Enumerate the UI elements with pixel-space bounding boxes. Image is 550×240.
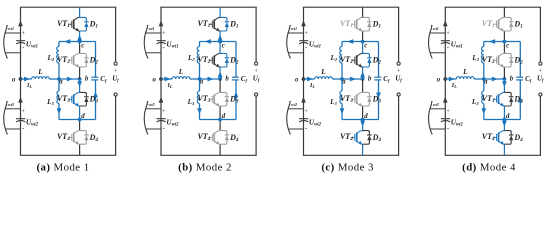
diode D4 (anti-parallel) xyxy=(504,131,511,145)
node b xyxy=(503,77,507,81)
wire: emitter stub of VT3 xyxy=(503,106,505,120)
transistor VT1 xyxy=(351,23,355,25)
node 0 (junction on left rail) xyxy=(302,77,306,81)
wire: right rail upper segment xyxy=(539,7,541,62)
svg-text:c: c xyxy=(364,43,367,50)
svg-text:IL: IL xyxy=(26,82,32,89)
svg-text:+: + xyxy=(397,67,401,74)
wire: emitter stub of VT1 xyxy=(79,31,81,42)
current arrow L3 down xyxy=(197,108,202,114)
current arrow L3 down xyxy=(481,108,486,114)
wire: Cf column upper segment xyxy=(519,42,521,78)
wire: c-row horizontal (L-column to Cf column) xyxy=(59,41,96,43)
wire: L-column top segment (c-row corner to L2) xyxy=(58,42,60,47)
inductor L3 xyxy=(57,91,59,103)
current arrow c-row (left) xyxy=(205,39,211,44)
current arrow Iwt2 (up, on left rail) xyxy=(18,97,23,103)
svg-text:+: + xyxy=(21,108,25,115)
wire: d-row horizontal (L-column to Cf column) xyxy=(200,119,237,121)
output port terminal (top circle) xyxy=(114,62,117,65)
transistor VT1 xyxy=(68,23,72,25)
capacitor Uwt2 (polarized) xyxy=(157,118,166,120)
wire: lower stub of winding 2 xyxy=(288,128,304,130)
transistor VT4 xyxy=(209,136,213,138)
wire: c-row horizontal (L-column to Cf column) xyxy=(342,41,379,43)
wire: right rail lower segment xyxy=(255,96,257,155)
wire: collector stub of VT1 xyxy=(79,7,81,17)
wire: emitter stub of VT2 xyxy=(362,67,364,79)
wire: bottom rail xyxy=(160,154,256,156)
current arrow L3 down xyxy=(340,108,345,114)
capacitor Uwt2 (polarized) xyxy=(16,118,25,120)
current arrow a to b (right) xyxy=(67,77,73,82)
current arrow c-row (left) xyxy=(489,39,495,44)
output port terminal (top circle) xyxy=(397,62,400,65)
current arrow Iwt2 (up, on left rail) xyxy=(443,97,448,103)
wire: top rail xyxy=(303,6,399,8)
wire: collector stub of VT1 xyxy=(219,7,221,17)
wire: bottom rail xyxy=(445,154,541,156)
wire: collector stub of VT4 xyxy=(79,120,81,131)
wire: emitter stub of VT3 xyxy=(79,106,81,120)
current arrow IL (right) xyxy=(307,77,313,82)
inductor L2 xyxy=(57,47,59,63)
svg-text:d: d xyxy=(81,113,85,120)
current arrow node b into VT3 (down) xyxy=(502,81,507,87)
wire: upper stub of winding 1 xyxy=(146,32,161,34)
wire: collector stub of VT1 xyxy=(362,7,364,17)
wire: bottom rail xyxy=(303,154,399,156)
output port terminal (bottom circle) xyxy=(397,93,400,96)
svg-text:(a) Mode 1: (a) Mode 1 xyxy=(36,161,89,173)
node c xyxy=(361,40,365,44)
svg-text:c: c xyxy=(506,43,509,50)
wire: Cf column lower segment xyxy=(378,80,380,120)
wire: node 0 to inductor L xyxy=(161,78,172,80)
current arrow Cf column (up) xyxy=(93,92,98,98)
svg-text:+: + xyxy=(539,67,543,74)
svg-text:(d) Mode 4: (d) Mode 4 xyxy=(462,161,516,173)
capacitor Uwt1 (polarized) xyxy=(16,40,25,42)
node a xyxy=(482,77,486,81)
diode D2 (anti-parallel) xyxy=(80,53,87,67)
wire: bottom rail xyxy=(20,154,116,156)
diode D4 (anti-parallel) xyxy=(220,131,227,145)
node b xyxy=(78,77,82,81)
transistor VT2 xyxy=(68,59,72,61)
wire: upper stub of winding 2 xyxy=(430,108,445,110)
wire: lower stub of winding 2 xyxy=(5,128,21,130)
wire: lower stub of winding 1 xyxy=(146,52,162,54)
wire: emitter stub of VT3 xyxy=(219,106,221,120)
current arrow c-row (left) xyxy=(64,39,70,44)
diode D2 (anti-parallel) xyxy=(220,53,227,67)
wire: inductor L to node a xyxy=(190,78,200,80)
wire: top rail xyxy=(20,6,116,8)
winding arc of source Uwt2 xyxy=(4,105,8,135)
wire: L2 to node a xyxy=(58,63,60,79)
diode D3 (anti-parallel) xyxy=(504,92,511,106)
current arrow a to b (right) xyxy=(208,77,214,82)
capacitor Cf xyxy=(374,76,381,78)
current arrow Cf column (down) xyxy=(376,93,381,99)
svg-text:L: L xyxy=(462,68,468,76)
wire: left rail xyxy=(444,7,446,155)
wire: right rail upper segment xyxy=(398,7,400,62)
wire: node a to L3 xyxy=(483,79,485,91)
transistor VT3 xyxy=(493,98,497,100)
wire: L2 to node a xyxy=(341,63,343,79)
wire: d-row horizontal (L-column to Cf column) xyxy=(484,119,521,121)
wire: L2 to node a xyxy=(483,63,485,79)
wire: collector stub of VT3 xyxy=(79,79,81,92)
panel (a) Mode 1 xyxy=(4,7,120,155)
wire: inductor L to node a xyxy=(474,78,484,80)
wire: L2 to node a xyxy=(199,63,201,79)
current arrow L3 down xyxy=(57,108,62,114)
svg-text:o: o xyxy=(295,76,299,83)
node 0 (junction on left rail) xyxy=(443,77,447,81)
current arrow node d into VT4 (down) xyxy=(502,121,507,127)
svg-text:IL: IL xyxy=(167,82,173,89)
output port terminal (bottom circle) xyxy=(114,93,117,96)
node 0 (junction on left rail) xyxy=(19,77,23,81)
node b xyxy=(361,77,365,81)
wire: lower stub of winding 1 xyxy=(430,52,446,54)
svg-text:c: c xyxy=(81,43,84,50)
winding arc of source Uwt2 xyxy=(429,105,433,135)
inductor L xyxy=(315,77,333,79)
wire: node a to node b xyxy=(342,78,363,80)
wire: emitter stub of VT4 xyxy=(219,144,221,155)
wire: Cf column upper segment xyxy=(95,42,97,78)
diode D3 (anti-parallel) xyxy=(80,92,87,106)
capacitor Uwt1 (polarized) xyxy=(299,40,308,42)
wire: emitter stub of VT4 xyxy=(503,144,505,155)
current arrow Cf column (up) xyxy=(234,92,239,98)
svg-text:+: + xyxy=(21,30,25,37)
wire: collector stub of VT2 xyxy=(362,42,364,54)
node c xyxy=(503,40,507,44)
winding arc of source Uwt2 xyxy=(287,105,291,135)
svg-text:o: o xyxy=(152,76,156,83)
transistor VT2 xyxy=(209,59,213,61)
node d xyxy=(361,118,365,122)
wire: c-row horizontal (L-column to Cf column) xyxy=(484,41,521,43)
output port terminal (bottom circle) xyxy=(255,93,258,96)
current arrow node b into D2 branch (up) xyxy=(218,71,223,77)
wire: emitter stub of VT1 xyxy=(503,31,505,42)
current arrow Iwt1 (up, on left rail) xyxy=(301,20,306,26)
current arrow IL (right) xyxy=(449,77,455,82)
wire: upper stub of winding 1 xyxy=(5,32,20,34)
transistor VT1 xyxy=(493,23,497,25)
node d xyxy=(503,118,507,122)
inductor L2 xyxy=(340,47,342,63)
wire: left rail xyxy=(303,7,305,155)
capacitor Uwt1 (polarized) xyxy=(157,40,166,42)
wire: left rail xyxy=(20,7,22,155)
wire: right rail upper segment xyxy=(115,7,117,62)
current arrow Iwt1 (up, on left rail) xyxy=(18,20,23,26)
svg-text:+: + xyxy=(162,30,166,37)
wire: node 0 to inductor L xyxy=(445,78,456,80)
wire: node 0 to inductor L xyxy=(304,78,315,80)
diode D4 (anti-parallel) xyxy=(80,131,87,145)
wire: upper stub of winding 2 xyxy=(5,108,20,110)
wire: upper stub of winding 1 xyxy=(288,32,303,34)
node a xyxy=(340,77,344,81)
wire: node a to node b xyxy=(484,78,505,80)
wire: node a to node b xyxy=(59,78,80,80)
wire: left rail xyxy=(160,7,162,155)
capacitor Cf xyxy=(516,76,523,78)
node d xyxy=(78,118,82,122)
wire: collector stub of VT3 xyxy=(219,79,221,92)
capacitor Cf xyxy=(232,76,239,78)
diode D1 (anti-parallel) xyxy=(80,17,87,31)
diode D1 (anti-parallel) xyxy=(504,17,511,31)
transistor VT4 xyxy=(68,136,72,138)
wire: collector stub of VT2 xyxy=(503,42,505,54)
node c xyxy=(78,40,82,44)
wire: emitter stub of VT4 xyxy=(79,144,81,155)
capacitor Uwt1 (polarized) xyxy=(441,40,450,42)
wire: node 0 to inductor L xyxy=(21,78,32,80)
current arrow through D1 branch (up) xyxy=(77,35,82,41)
winding arc of source Uwt1 xyxy=(429,29,433,59)
wire: node a to L3 xyxy=(199,79,201,91)
wire: lower stub of winding 1 xyxy=(288,52,304,54)
inductor L2 xyxy=(197,47,199,63)
inductor L2 xyxy=(482,47,484,63)
node 0 (junction on left rail) xyxy=(159,77,163,81)
winding arc of source Uwt2 xyxy=(144,105,148,135)
wire: L3 to d-row corner xyxy=(483,104,485,120)
wire: emitter stub of VT2 xyxy=(219,67,221,79)
node b xyxy=(218,77,222,81)
svg-text:+: + xyxy=(446,30,450,37)
wire: emitter stub of VT1 xyxy=(362,31,364,42)
wire: d-row horizontal (L-column to Cf column) xyxy=(342,119,379,121)
wire: emitter stub of VT2 xyxy=(79,67,81,79)
wire: right rail lower segment xyxy=(539,96,541,155)
svg-text:d: d xyxy=(364,113,368,120)
current arrow a to b (right) xyxy=(492,77,498,82)
wire: Cf column upper segment xyxy=(378,42,380,78)
svg-text:(c) Mode 3: (c) Mode 3 xyxy=(321,161,373,173)
wire: inductor L to node a xyxy=(332,78,342,80)
inductor L xyxy=(172,77,190,79)
svg-text:b: b xyxy=(510,76,514,83)
svg-text:IL: IL xyxy=(309,82,315,89)
svg-text:+: + xyxy=(162,108,166,115)
panel (c) Mode 3 xyxy=(287,7,403,155)
output port terminal (top circle) xyxy=(539,62,542,65)
wire: right rail lower segment xyxy=(115,96,117,155)
svg-text:IL: IL xyxy=(451,82,457,89)
transistor VT3 xyxy=(68,98,72,100)
wire: right rail upper segment xyxy=(255,7,257,62)
capacitor Uwt2 (polarized) xyxy=(299,118,308,120)
wire: lower stub of winding 2 xyxy=(430,128,446,130)
wire: L3 to d-row corner xyxy=(199,104,201,120)
wire: upper stub of winding 2 xyxy=(146,108,161,110)
current arrow node b into D2 branch (up) xyxy=(360,71,365,77)
diode D4 (anti-parallel) xyxy=(363,131,370,145)
wire: inductor L to node a xyxy=(49,78,59,80)
wire: L3 to d-row corner xyxy=(341,104,343,120)
node d xyxy=(218,118,222,122)
wire: collector stub of VT4 xyxy=(219,120,221,131)
transistor VT3 xyxy=(209,98,213,100)
current arrow IL (right) xyxy=(24,77,30,82)
winding arc of source Uwt1 xyxy=(144,29,148,59)
diode D3 (anti-parallel) xyxy=(220,92,227,106)
wire: emitter stub of VT3 xyxy=(362,106,364,120)
wire: collector stub of VT1 xyxy=(503,7,505,17)
wire: d-row horizontal (L-column to Cf column) xyxy=(59,119,96,121)
inductor L3 xyxy=(197,91,199,103)
current arrow Iwt2 (up, on left rail) xyxy=(301,97,306,103)
panel (b) Mode 2 xyxy=(144,7,260,155)
diode D1 (anti-parallel) xyxy=(220,17,227,31)
current arrow Iwt2 (up, on left rail) xyxy=(159,97,164,103)
current arrow through D1 branch (up) xyxy=(218,35,223,41)
node a xyxy=(57,77,61,81)
transistor VT1 xyxy=(209,23,213,25)
wire: collector stub of VT2 xyxy=(219,42,221,54)
current arrow c-row (left) xyxy=(347,39,353,44)
transistor VT4 xyxy=(351,136,355,138)
wire: L-column top segment (c-row corner to L2) xyxy=(199,42,201,47)
wire: L-column top segment (c-row corner to L2) xyxy=(341,42,343,47)
svg-text:d: d xyxy=(506,113,510,120)
svg-text:+: + xyxy=(446,108,450,115)
diode D2 (anti-parallel) xyxy=(504,53,511,67)
svg-text:L: L xyxy=(178,68,184,76)
wire: right rail lower segment xyxy=(398,96,400,155)
svg-text:o: o xyxy=(437,76,441,83)
wire: c-row horizontal (L-column to Cf column) xyxy=(200,41,237,43)
svg-text:c: c xyxy=(222,43,225,50)
wire: Cf column upper segment xyxy=(235,42,237,78)
wire: lower stub of winding 2 xyxy=(146,128,162,130)
current arrow a to b (right) xyxy=(350,77,356,82)
svg-text:+: + xyxy=(254,67,258,74)
node c xyxy=(218,40,222,44)
wire: node a to node b xyxy=(200,78,221,80)
svg-text:+: + xyxy=(114,67,118,74)
wire: Cf column lower segment xyxy=(235,80,237,120)
svg-text:L: L xyxy=(320,68,326,76)
capacitor Cf xyxy=(91,76,98,78)
svg-text:+: + xyxy=(304,108,308,115)
capacitor Uwt2 (polarized) xyxy=(441,118,450,120)
wire: upper stub of winding 2 xyxy=(288,108,303,110)
current arrow node b into VT3 (down) xyxy=(77,81,82,87)
wire: top rail xyxy=(160,6,256,8)
inductor L xyxy=(456,77,474,79)
winding arc of source Uwt1 xyxy=(287,29,291,59)
wire: Cf column lower segment xyxy=(519,80,521,120)
svg-text:b: b xyxy=(225,76,229,83)
current arrow Iwt1 (up, on left rail) xyxy=(159,20,164,26)
wire: node a to L3 xyxy=(58,79,60,91)
wire: collector stub of VT3 xyxy=(503,79,505,92)
node a xyxy=(198,77,202,81)
current arrow Iwt1 (up, on left rail) xyxy=(443,20,448,26)
output port terminal (top circle) xyxy=(255,62,258,65)
svg-text:b: b xyxy=(85,76,89,83)
diode D2 (anti-parallel) xyxy=(363,53,370,67)
svg-text:d: d xyxy=(222,113,226,120)
wire: emitter stub of VT4 xyxy=(362,144,364,155)
svg-text:b: b xyxy=(368,76,372,83)
current arrow IL (right) xyxy=(165,77,171,82)
svg-text:L: L xyxy=(37,68,43,76)
inductor L xyxy=(32,77,50,79)
wire: emitter stub of VT2 xyxy=(503,67,505,79)
wire: L3 to d-row corner xyxy=(58,104,60,120)
wire: collector stub of VT4 xyxy=(362,120,364,131)
inductor L3 xyxy=(340,91,342,103)
current arrow Cf column (up) xyxy=(518,97,523,103)
diode D3 (anti-parallel) xyxy=(363,92,370,106)
wire: emitter stub of VT1 xyxy=(219,31,221,42)
wire: collector stub of VT4 xyxy=(503,120,505,131)
panel (d) Mode 4 xyxy=(429,7,545,155)
transistor VT3 xyxy=(351,98,355,100)
current arrow node d into VT4 (down) xyxy=(360,121,365,127)
svg-text:(b) Mode 2: (b) Mode 2 xyxy=(178,161,232,173)
wire: Cf column lower segment xyxy=(95,80,97,120)
wire: lower stub of winding 1 xyxy=(5,52,21,54)
wire: upper stub of winding 1 xyxy=(430,32,445,34)
wire: node a to L3 xyxy=(341,79,343,91)
wire: collector stub of VT2 xyxy=(79,42,81,54)
wire: L-column top segment (c-row corner to L2) xyxy=(483,42,485,47)
output port terminal (bottom circle) xyxy=(539,93,542,96)
diode D1 (anti-parallel) xyxy=(363,17,370,31)
wire: collector stub of VT3 xyxy=(362,79,364,92)
svg-text:+: + xyxy=(304,30,308,37)
wire: top rail xyxy=(445,6,541,8)
winding arc of source Uwt1 xyxy=(4,29,8,59)
transistor VT2 xyxy=(351,59,355,61)
transistor VT2 xyxy=(493,59,497,61)
svg-text:o: o xyxy=(12,76,16,83)
transistor VT4 xyxy=(493,136,497,138)
inductor L3 xyxy=(482,91,484,103)
